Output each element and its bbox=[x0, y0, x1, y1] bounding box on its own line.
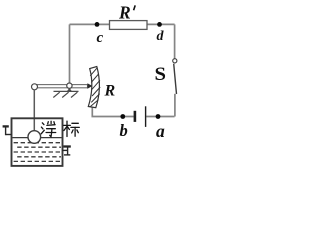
switch S blade bbox=[174, 64, 177, 94]
lever rod (double line) bbox=[37, 85, 88, 88]
tank box bbox=[12, 118, 63, 166]
left tank fitting bbox=[3, 126, 12, 135]
water hatching dashes bbox=[14, 143, 61, 162]
wire left vertical down to pivot bbox=[69, 24, 71, 84]
water surface line bbox=[13, 137, 62, 139]
svg-text:R: R bbox=[118, 2, 131, 22]
svg-text:d: d bbox=[157, 29, 165, 44]
rheostat R curved band bbox=[88, 67, 99, 108]
wire bottom horizontal (R bottom to battery) bbox=[92, 107, 133, 116]
svg-text:S: S bbox=[155, 64, 167, 85]
wiper arrowhead bbox=[87, 83, 92, 89]
pivot support ground hatching bbox=[53, 92, 77, 97]
wire bottom horizontal (battery to a corner) bbox=[146, 116, 174, 118]
svg-text:R: R bbox=[104, 82, 116, 99]
label 浮 (hand-drawn strokes) bbox=[41, 121, 56, 136]
label 标 (hand-drawn strokes) bbox=[64, 121, 80, 136]
rheostat R hatching bbox=[90, 68, 100, 107]
resistor R' box bbox=[110, 21, 148, 30]
node d bbox=[157, 22, 162, 27]
battery positive long plate bbox=[145, 106, 147, 127]
right tank fitting bbox=[62, 147, 71, 156]
pivot support base line bbox=[54, 90, 79, 92]
switch S circle contact bbox=[173, 59, 177, 63]
svg-text:a: a bbox=[156, 121, 165, 141]
svg-text:c: c bbox=[97, 30, 104, 46]
pivot circle on lever bbox=[67, 83, 72, 88]
node a bbox=[156, 114, 161, 119]
svg-text:b: b bbox=[120, 121, 128, 140]
float rod vertical bbox=[33, 90, 35, 133]
battery negative short plate bbox=[134, 111, 137, 122]
float ball bbox=[28, 131, 41, 144]
node c bbox=[95, 22, 100, 27]
node b bbox=[120, 114, 125, 119]
wire right vertical upper (d to switch) bbox=[174, 24, 176, 58]
lever left end circle (float rod joint) bbox=[32, 84, 38, 90]
pivot support wedge legs bbox=[67, 88, 72, 92]
wire top horizontal c to d bbox=[70, 23, 175, 25]
wire right vertical lower (switch to corner a) bbox=[174, 94, 176, 117]
